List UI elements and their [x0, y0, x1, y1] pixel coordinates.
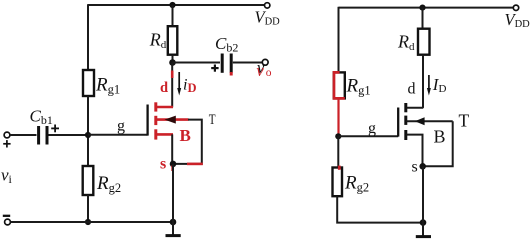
- wire: input to Cb1: [10, 134, 37, 136]
- svg-text:d: d: [408, 81, 416, 98]
- MOSFET T (right): gate bar: [397, 108, 399, 137]
- capacitor Cb1: [39, 126, 47, 145]
- resistor Rg1: [83, 70, 94, 96]
- label vi: [1, 166, 13, 187]
- MOSFET T (right): source lead: [407, 135, 423, 167]
- MOSFET T (left): gate bar: [146, 105, 148, 136]
- label Cb1: [30, 107, 53, 128]
- terminal: VDD open circle (right): [513, 5, 518, 10]
- node: divider bottom junction: [85, 219, 91, 225]
- wire: drain vertical (junction down to MOSFET): [171, 63, 173, 108]
- wire: s to ground junction (right): [422, 166, 424, 222]
- wire: left rail lower segment: [87, 195, 89, 222]
- label Rd (left): [149, 30, 167, 51]
- MOSFET T (left): drain lead (red): [157, 106, 174, 109]
- label + (input polarity): [3, 140, 10, 147]
- svg-text:B: B: [180, 126, 191, 145]
- node: gate junction (right): [335, 133, 341, 139]
- current arrow iD: [177, 72, 181, 96]
- label VDD (right): [505, 10, 530, 30]
- wire: gate junction to Rg2: [337, 136, 339, 167]
- label minus (input): [3, 215, 10, 217]
- wire: Cb1 to gate node: [49, 134, 89, 136]
- label + (Cb1 polarity): [51, 125, 59, 133]
- resistor Rg1 (right, red highlighted): [334, 72, 345, 98]
- label g (right): [368, 120, 376, 137]
- node: source s (right): [419, 163, 426, 170]
- wire: gate junction to gate bar (right): [338, 135, 398, 137]
- wire: body to source (black part): [173, 120, 202, 164]
- node: source s: [170, 161, 177, 168]
- svg-text:v: v: [256, 61, 264, 80]
- wire: source lead down to s node: [171, 134, 173, 164]
- ground (right circuit): [416, 223, 431, 237]
- MOSFET T (left): channel bars (red): [154, 102, 157, 139]
- node: top junction at Rd (right): [419, 5, 425, 11]
- svg-text:o: o: [266, 67, 272, 79]
- current arrow ID (right): [427, 75, 431, 96]
- wire: red segment Rg1 to gate junction: [337, 98, 339, 135]
- MOSFET T (right): channel bars: [404, 103, 407, 140]
- resistor Rd (left): [168, 26, 178, 55]
- wire: left rail upper segment: [87, 4, 89, 70]
- terminal: input bottom open circle: [5, 219, 11, 225]
- label B (right): [434, 127, 446, 147]
- wire: Rd bottom to drain: [422, 55, 424, 108]
- resistor Rd (right): [418, 29, 430, 55]
- label vo: [256, 58, 271, 80]
- label g: [117, 118, 125, 135]
- label ID (right): [432, 75, 447, 95]
- MOSFET T (left): source lead (red): [157, 133, 174, 136]
- label Rg1: [95, 75, 120, 97]
- wire: left rail (right circuit) top segment: [338, 7, 340, 73]
- label VDD (left): [255, 7, 281, 27]
- wire: s node to bottom junction: [172, 164, 174, 222]
- node: ground junction (right): [420, 219, 427, 226]
- label d (right): [408, 81, 416, 98]
- MOSFET T (right): body lead with arrow: [407, 117, 453, 125]
- wire: left rail middle segment: [87, 96, 89, 166]
- label s (right): [412, 159, 418, 176]
- label Rg2: [96, 173, 121, 195]
- label + (Cb2 polarity): [211, 65, 218, 72]
- resistor Rg2: [83, 166, 94, 195]
- wire: junction to gate: [88, 134, 148, 136]
- svg-text:s: s: [412, 159, 418, 176]
- svg-text:T: T: [209, 112, 216, 128]
- wire: top rail from left rail to VDD terminal: [88, 4, 264, 6]
- label Rg2 (right): [344, 173, 369, 195]
- ground (left circuit): [166, 222, 181, 236]
- MOSFET T (left): body lead (red) with arrow: [157, 116, 189, 124]
- label s (red): [160, 156, 166, 173]
- label iD: [183, 77, 197, 96]
- MOSFET T (right): drain lead: [407, 107, 424, 109]
- terminal: output open circle: [262, 59, 268, 65]
- terminal: input top open circle: [4, 132, 10, 138]
- label T (left): [209, 112, 216, 128]
- capacitor Cb2: [222, 54, 231, 73]
- wire: top rail right circuit: [339, 7, 514, 9]
- wire: drain junction to Cb2: [173, 62, 221, 64]
- wire: Rd top lead: [172, 5, 174, 26]
- wire: Rd bottom lead: [172, 55, 174, 63]
- red tick below s node: [171, 166, 174, 172]
- red tick at Rg2 top (right): [338, 166, 341, 170]
- node: drain-output junction: [169, 59, 176, 66]
- resistor Rg2 (right): [333, 168, 343, 197]
- svg-text:g: g: [117, 118, 125, 135]
- svg-text:d: d: [160, 80, 168, 96]
- label Rd (right): [397, 32, 415, 53]
- node: top junction at Rd: [169, 2, 175, 8]
- wire: bottom rail: [11, 221, 174, 223]
- svg-text:s: s: [160, 156, 166, 173]
- node: gate-divider junction: [85, 132, 91, 138]
- svg-text:B: B: [434, 127, 446, 147]
- label d (red): [160, 80, 168, 96]
- wire: body down to source level (right): [423, 121, 453, 166]
- red overlay on body-source wire: [187, 163, 203, 166]
- label Rg1 (right): [346, 76, 371, 98]
- label T (right): [459, 111, 470, 131]
- red tick on drain wire: [171, 71, 174, 79]
- label Cb2: [215, 34, 238, 55]
- wire: Rd top lead (right): [422, 8, 424, 29]
- node: bottom junction at source column: [170, 219, 177, 226]
- red tick under Cb2 right plate: [230, 72, 233, 76]
- wire: Cb2 to output terminal: [233, 62, 262, 64]
- svg-text:T: T: [459, 111, 470, 131]
- label B (red): [180, 126, 191, 145]
- wire: Rg2 to bottom rail corner: [337, 196, 423, 222]
- svg-text:D: D: [188, 81, 197, 95]
- terminal: VDD open circle: [265, 3, 270, 8]
- svg-text:g: g: [368, 120, 376, 137]
